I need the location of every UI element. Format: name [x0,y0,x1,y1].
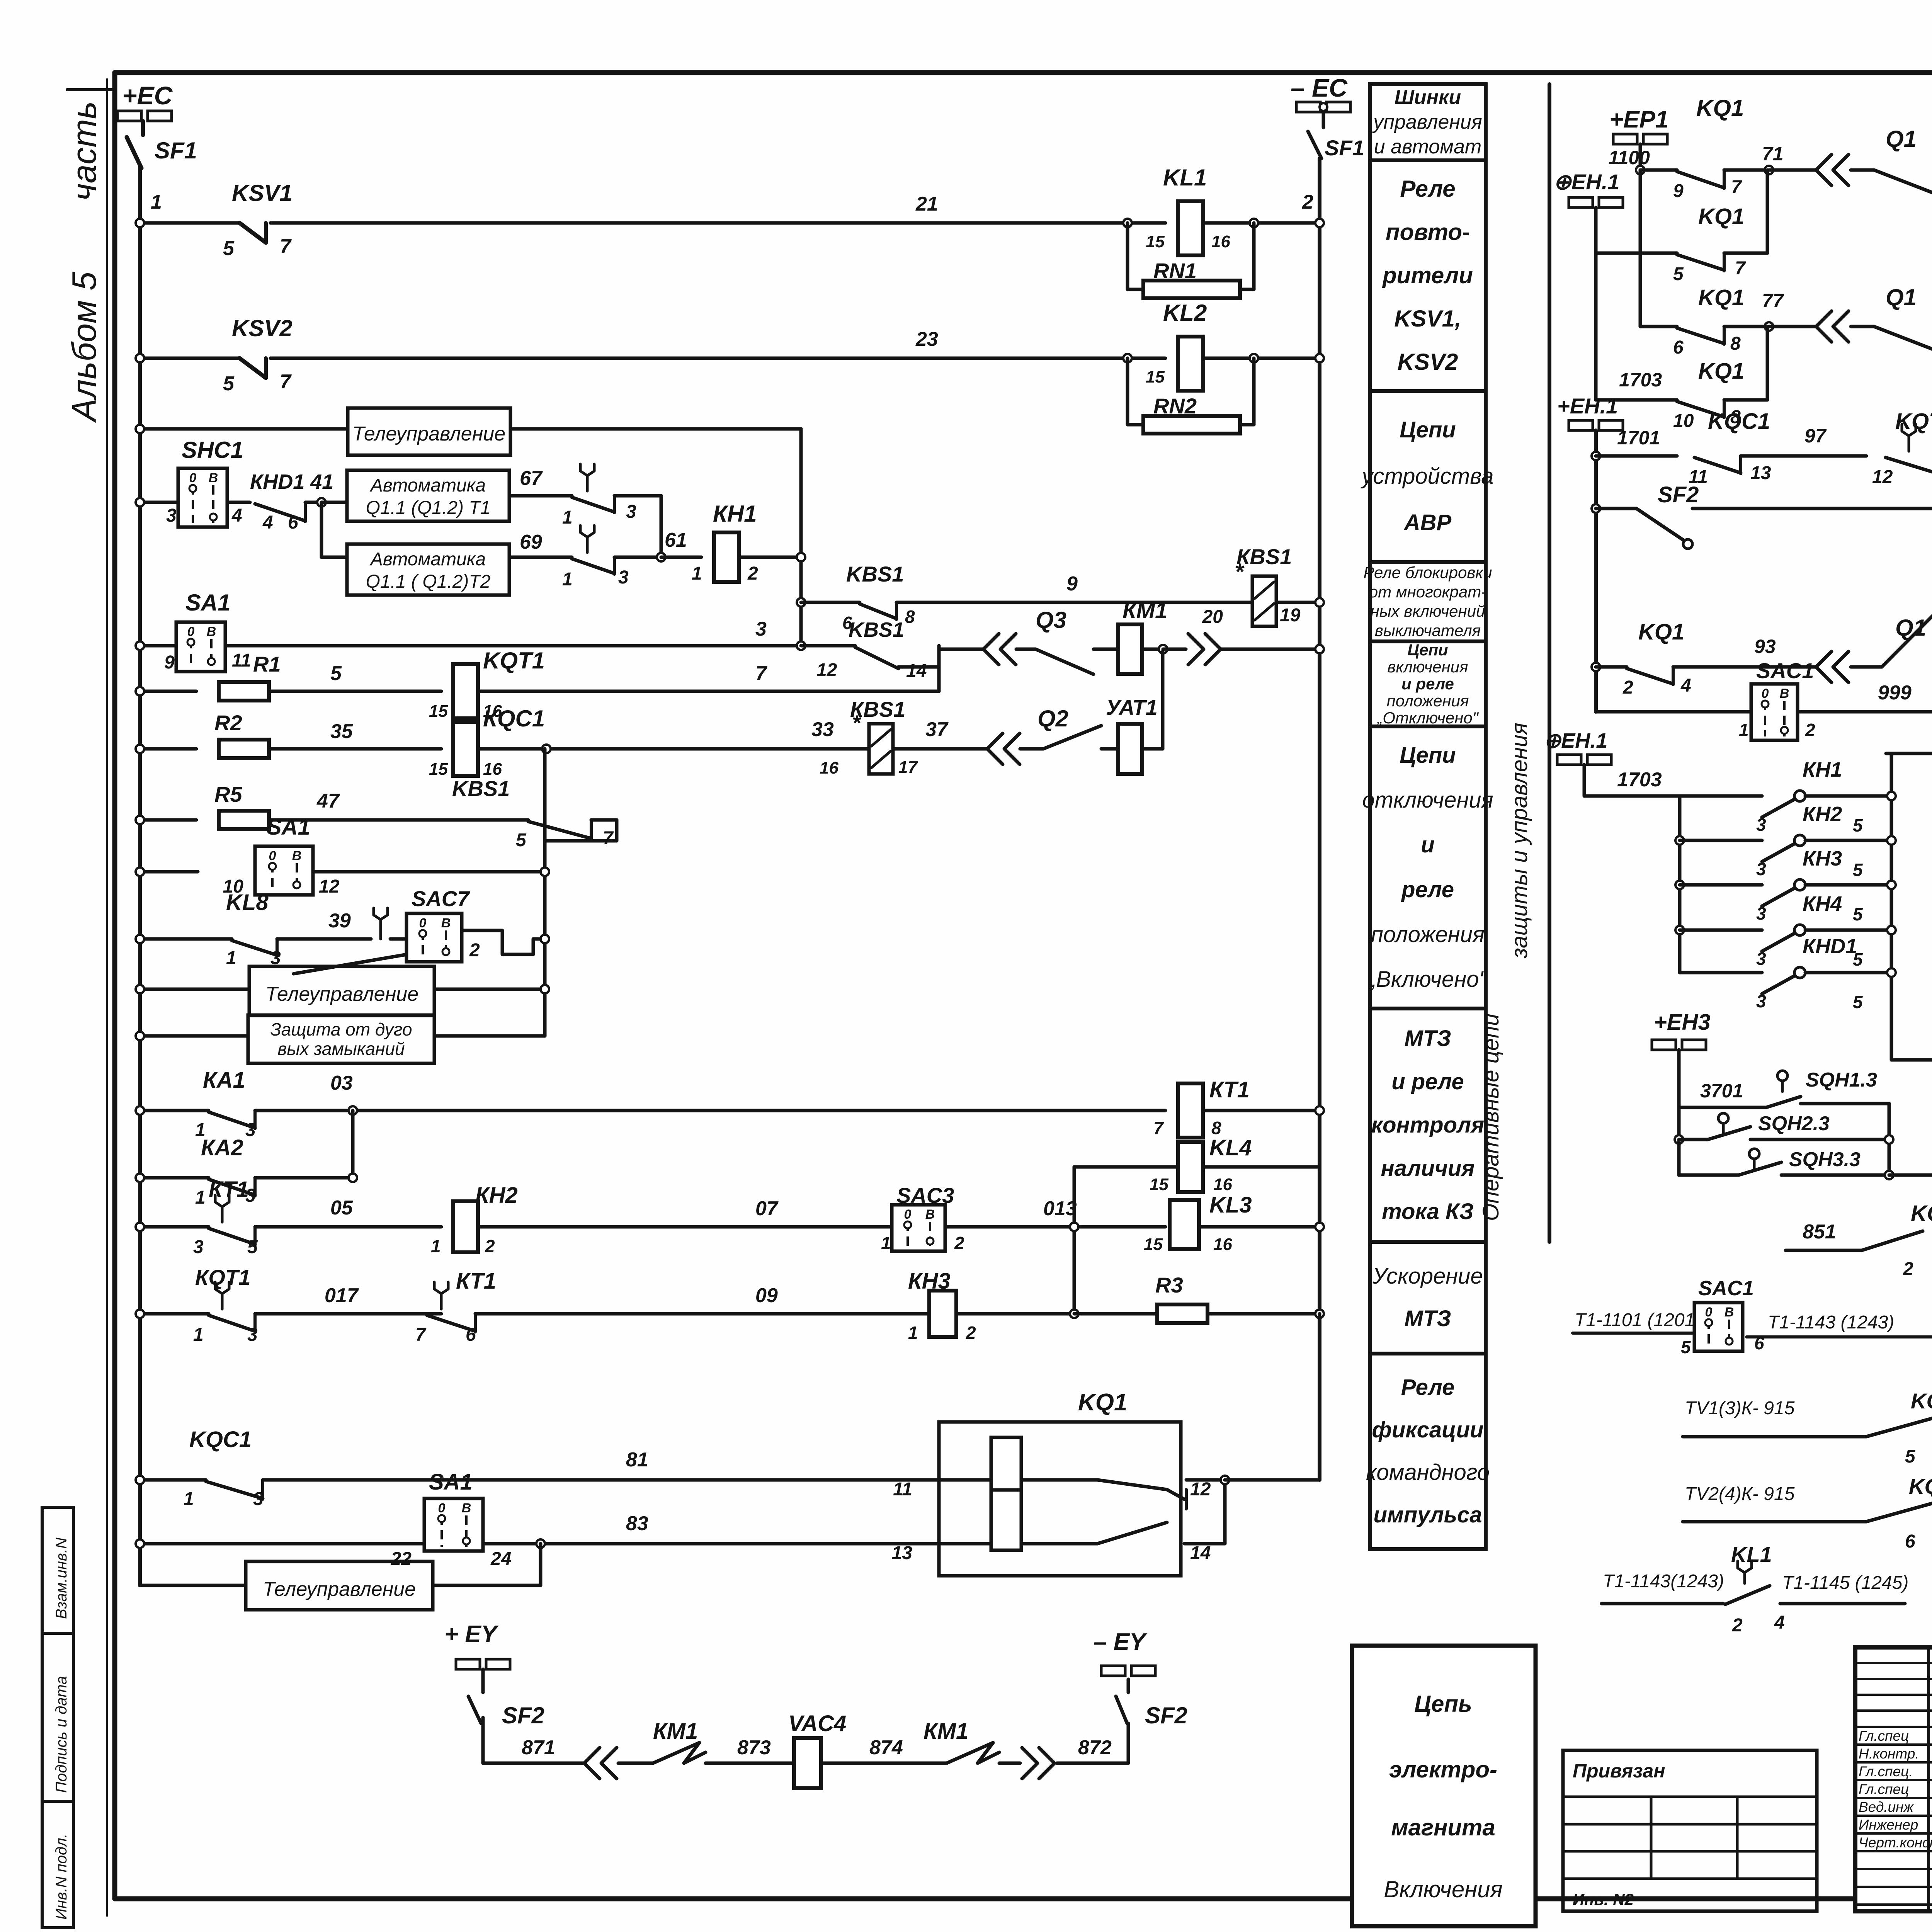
svg-text:KQ1: KQ1 [1698,359,1744,384]
svg-text:KL2: KL2 [1163,300,1207,326]
svg-text:5: 5 [330,662,342,685]
wire SA1 to trunk T1 [225,644,801,648]
wire to R3 [956,1312,1074,1316]
inner trunk T1 vertical [799,429,803,646]
wire SAC1 left to rail [1596,710,1751,714]
svg-text:Q1: Q1 [1886,126,1917,152]
svg-text:9: 9 [1673,181,1684,201]
middle col box: Цепи устройства АВР [1370,391,1486,562]
svg-text:3: 3 [253,1489,264,1509]
wire 33 to KBS1 slash 16-17 [478,747,869,751]
svg-text:Черт.конст: Черт.конст [1859,1835,1932,1850]
arrows plug-in left Q3 row [983,634,999,665]
svg-text:5: 5 [247,1237,258,1257]
svg-text:Т1-1143 (1243): Т1-1143 (1243) [1768,1312,1894,1333]
svg-text:В: В [209,471,218,485]
svg-text:16: 16 [1213,1235,1232,1254]
svg-text:Привязан: Привязан [1573,1760,1665,1782]
row Телеуправление 2 [140,988,249,991]
row 1701 KQC1 contact [1592,452,1600,460]
wire up to node 71 [1724,252,1767,255]
svg-text:устройства: устройства [1360,464,1493,489]
svg-text:SF1: SF1 [1325,136,1364,160]
wire 09 to KH3 [475,1312,929,1316]
svg-text:наличия: наличия [1381,1156,1475,1181]
KQ1 internal coil rects [991,1437,1021,1490]
row R2-KQC1 [140,747,196,751]
svg-text:КН2: КН2 [475,1183,518,1208]
svg-text:Н.контр.: Н.контр. [1859,1746,1919,1762]
row HLW1 lamp [1891,1058,1932,1062]
wire R3 to -EC trunk [1207,1312,1320,1316]
wire Защита box to trunk T2 [434,1034,545,1038]
svg-text:повто-: повто- [1386,219,1470,245]
svg-text:67: 67 [520,467,543,490]
svg-text:6: 6 [466,1325,476,1345]
svg-text:77: 77 [1762,290,1784,311]
svg-text:71: 71 [1762,143,1784,165]
contact KQ1 2-4 on rail [1592,663,1600,671]
left stamp box Взам.инв.N [42,1507,73,1633]
box Автоматика Q1.1(Q1.2)Т1 [347,470,509,521]
wire 871 [483,1762,583,1765]
svg-text:R2: R2 [214,711,242,735]
svg-text:07: 07 [755,1197,779,1220]
contact SQH1.3 [1777,1071,1787,1081]
svg-text:KQC1: KQC1 [1708,409,1770,434]
svg-text:20: 20 [1202,607,1223,627]
svg-text:2: 2 [1622,677,1633,698]
svg-text:81: 81 [626,1449,648,1471]
svg-text:и реле: и реле [1401,675,1454,693]
wire KT1 coil to -EC trunk [1203,1109,1320,1112]
svg-text:3: 3 [618,567,629,588]
svg-text:3: 3 [193,1237,204,1257]
wire 872 to SF2 [1057,1762,1128,1765]
svg-text:0: 0 [1705,1305,1713,1320]
jog vertical connecting Q3 row and R1 row [937,646,941,691]
row Защита от дуговых замыканий [140,1034,248,1038]
svg-text:ных включений: ных включений [1371,602,1485,620]
svg-text:Ускорение: Ускорение [1372,1264,1483,1289]
svg-text:16: 16 [483,760,502,779]
wire Телеуправление3 up to wire 83 [433,1584,541,1587]
margin tick top-left [67,88,114,91]
svg-text:КQТ1: КQТ1 [195,1265,250,1289]
svg-text:3: 3 [1756,949,1766,969]
wire 23 to coil KL2 [270,357,1165,360]
svg-text:7: 7 [280,371,292,393]
svg-text:Цепи: Цепи [1400,743,1456,768]
bus -EY tap [1101,1666,1125,1676]
relay coil KH1 [661,556,701,559]
svg-text:5: 5 [1853,992,1863,1012]
svg-text:2: 2 [469,940,480,961]
svg-text:KL8: KL8 [226,890,269,915]
svg-text:R1: R1 [253,652,281,676]
svg-text:Цепи: Цепи [1400,417,1456,442]
left paper edge line [106,79,108,1916]
svg-text:КТ1: КТ1 [1209,1077,1250,1102]
svg-text:6: 6 [288,512,298,533]
wire 69 to contact KL2 [509,556,572,559]
svg-text:93: 93 [1754,636,1776,657]
svg-text:В: В [292,849,302,863]
contact KH2 row [1675,836,1684,845]
svg-text:2: 2 [966,1323,976,1343]
wire 35 to coil KQC1 [269,747,441,751]
KQ1 lower internal wire and contact [939,1542,991,1546]
svg-text:6: 6 [1673,337,1684,358]
svg-text:5: 5 [1853,904,1863,924]
interlock KBS1 slash box 20-19 [1252,576,1276,626]
svg-text:873: 873 [737,1736,771,1759]
rail SQH right [1888,1104,1891,1175]
wire YAT1 up to KM1 node [1142,747,1163,751]
svg-text:16: 16 [1211,232,1230,251]
vertical from +EP1 node down to row 77 [1639,170,1642,327]
svg-text:отключения: отключения [1362,787,1493,813]
row3 wire to Телеуправление box [140,427,348,431]
svg-text:KQT1: KQT1 [483,648,545,673]
svg-text:3: 3 [245,1120,256,1140]
middle col box: Реле фиксации командного импульса [1370,1354,1486,1549]
svg-text:Включения: Включения [1384,1876,1502,1902]
svg-text:22: 22 [391,1549,412,1569]
middle col box: Реле блокировки от многократных включений выключателя [1370,562,1486,641]
svg-text:КН4: КН4 [1803,892,1842,915]
svg-text:03: 03 [330,1072,353,1094]
svg-text:КН1: КН1 [1803,758,1842,781]
wire 05 to coil KH2 [255,1225,441,1229]
breaker SF2 on +EY [481,1669,485,1692]
svg-text:Подпись и дата: Подпись и дата [53,1676,70,1793]
relay coil KHD1 [1889,1173,1932,1177]
row1 wire KSV1-KL1 [140,221,240,225]
wire KL3 to -EC trunk [1199,1225,1320,1229]
svg-text:15: 15 [429,760,448,779]
title block outer frame [1855,1647,1932,1911]
wire +EH3 down to 3701 row [1677,1050,1681,1107]
svg-text:управления: управления [1372,111,1482,133]
svg-text:KL1: KL1 [1163,165,1207,190]
stamp Привязан box [1563,1750,1817,1911]
row KQC1 contact 81 [140,1478,206,1482]
svg-text:13: 13 [1750,463,1771,483]
row KA1 [140,1109,209,1112]
row KT1 contact - KH2 [140,1225,209,1229]
box Цепь электромагнита Включения [1352,1646,1536,1926]
svg-text:12: 12 [1190,1479,1211,1500]
ladder right rail vertical for KH contacts [1890,753,1893,1060]
node branch point 41 [317,498,326,507]
svg-text:4: 4 [1774,1612,1785,1633]
svg-text:Реле блокировки: Реле блокировки [1364,563,1492,582]
row KBS1 6-8 from trunk [797,598,805,607]
middle col box: Цепи отключения и реле положения Включено [1370,726,1486,1009]
svg-text:командного: командного [1366,1460,1490,1485]
svg-text:МТЗ: МТЗ [1404,1306,1451,1331]
svg-text:1: 1 [431,1236,441,1256]
wire SAC1 to trunk T2 with jog [462,930,545,954]
row SA1 first [140,644,176,648]
svg-text:Q3: Q3 [1036,607,1066,633]
svg-text:В: В [925,1207,935,1222]
svg-text:KQC1: KQC1 [1911,1201,1932,1226]
svg-text:Защита от дуго: Защита от дуго [270,1019,412,1039]
svg-text:КМ1: КМ1 [653,1719,698,1744]
svg-text:SF1: SF1 [155,138,197,163]
vertical 03 to KA2 row [351,1111,355,1178]
svg-text:Альбом 5: Альбом 5 [65,271,103,423]
svg-text:KQ1: KQ1 [1638,619,1684,645]
wire to trunk T2 [615,820,619,841]
svg-text:8: 8 [905,607,915,627]
svg-text:KL4: KL4 [1209,1135,1252,1160]
svg-text:Взам.инв.N: Взам.инв.N [53,1537,70,1619]
svg-text:5: 5 [223,372,235,395]
box Защита от дуговых замыканий [248,1015,434,1063]
middle rotated strip Оперативные цепи защиты и управления [1548,84,1551,1242]
svg-text:7: 7 [1735,258,1746,279]
svg-text:10: 10 [1673,411,1694,431]
svg-text:Гл.спец: Гл.спец [1859,1728,1909,1744]
svg-text:„Отключено": „Отключено" [1376,709,1479,727]
bus +EC tap symbol [117,111,141,121]
svg-text:вых замыканий: вых замыканий [277,1039,405,1059]
row Q3-KM1 from jog [939,648,983,651]
wire 999 to lamp box HLA21 [1798,710,1932,714]
wire 5 to coil KQT1 [269,690,441,693]
svg-text:KQC1: KQC1 [1911,1389,1932,1413]
contact KQ1 6-8 row 77 [1640,325,1677,328]
contact KQ1 10-8 row 1703 [1594,253,1598,400]
svg-text:магнита: магнита [1391,1815,1495,1840]
svg-text:и: и [1421,832,1434,857]
svg-text:61: 61 [665,529,687,551]
svg-text:реле: реле [1401,877,1454,902]
svg-text:КН3: КН3 [1803,847,1842,870]
resistor R1 [219,682,269,701]
svg-text:1: 1 [692,563,702,584]
svg-text:ТV2(4)К- 915: ТV2(4)К- 915 [1685,1484,1795,1504]
wire 013 to KL3 [945,1225,1165,1229]
svg-text:7: 7 [1153,1118,1164,1138]
svg-text:+EC: +EC [122,81,173,110]
arrows plug-in Q2 row [987,733,1003,764]
svg-text:1: 1 [195,1187,206,1208]
svg-text:KBS1: KBS1 [846,562,904,586]
wire 93 [1673,665,1816,669]
svg-text:3: 3 [247,1325,258,1345]
contact KH1 row [1680,794,1762,798]
svg-text:КМ1: КМ1 [923,1719,968,1744]
wire 21 to coil KL1 [270,221,1165,225]
middle col box: Цепи включения и реле положения Отключено [1370,641,1486,726]
svg-text:69: 69 [520,531,542,553]
svg-text:1100: 1100 [1608,147,1650,168]
row R5-KBS1 5-7 [140,818,196,822]
svg-text:5: 5 [516,830,527,850]
svg-text:Вед.инж: Вед.инж [1859,1799,1914,1815]
breaker SF1 on -EC [1322,112,1325,128]
svg-text:KQ1: KQ1 [1698,204,1744,229]
svg-text:КНD1 41: КНD1 41 [250,470,333,493]
svg-text:5: 5 [1905,1446,1916,1467]
middle col box: Ускорение МТЗ [1370,1242,1486,1354]
KQ1 output bracket to -EC trunk [1223,1480,1227,1544]
svg-text:2: 2 [1302,191,1313,213]
svg-text:Автоматика: Автоматика [369,549,486,570]
svg-text:1703: 1703 [1617,769,1662,791]
svg-text:SAC1: SAC1 [1756,658,1814,683]
svg-text:3: 3 [1756,903,1766,923]
svg-text:SA1: SA1 [185,590,231,616]
svg-text:KQC1: KQC1 [189,1427,252,1452]
svg-text:3: 3 [166,505,177,526]
box Телеуправление 1 [348,408,510,455]
svg-text:SA1: SA1 [267,815,310,840]
svg-text:0: 0 [419,916,427,930]
middle col box: Реле повторители KSV1 KSV2 [1370,160,1486,391]
svg-text:11: 11 [232,650,251,671]
svg-text:SAC7: SAC7 [412,886,470,911]
svg-text:0: 0 [438,1501,446,1515]
svg-text:KSV2: KSV2 [232,315,293,341]
svg-text:МТЗ: МТЗ [1404,1026,1451,1051]
svg-text:12: 12 [1872,467,1893,487]
svg-text:1: 1 [226,948,236,968]
svg-text:1: 1 [151,191,162,213]
svg-text:4: 4 [262,512,273,533]
svg-text:Q2: Q2 [1037,706,1068,731]
svg-text:013: 013 [1043,1197,1077,1220]
svg-text:R5: R5 [214,782,242,806]
row VD1 diode 905 HLA1 [1886,752,1932,755]
svg-text:+ EY: + EY [444,1621,499,1648]
wire to -EC trunk [1276,601,1320,604]
svg-text:3: 3 [1756,815,1766,835]
svg-text:2: 2 [1805,720,1815,740]
svg-text:Автоматика: Автоматика [369,475,486,496]
svg-text:KQ1: KQ1 [1698,285,1744,310]
right trunk -EC vertical [1318,158,1321,1480]
svg-text:1: 1 [908,1323,918,1343]
svg-text:3: 3 [1756,991,1766,1011]
svg-text:АВР: АВР [1403,510,1452,535]
svg-text:+ЕН.1: +ЕН.1 [1557,394,1618,418]
breaker SF2 on -EY [1127,1723,1130,1763]
wire to Q1 breaker contact row1 [1769,168,1816,172]
svg-text:положения: положения [1371,922,1485,947]
row4 switch SHC1 [140,501,178,504]
svg-text:КQС1: КQС1 [483,706,545,731]
svg-text:9: 9 [164,652,175,673]
svg-text:3: 3 [755,618,767,640]
svg-text:КН1: КН1 [713,501,757,527]
svg-text:⊕ЕН.1: ⊕ЕН.1 [1544,729,1607,752]
signature rows horizontals [1855,1743,1932,1746]
contact KHD1 row [1680,971,1762,975]
svg-text:УАТ1: УАТ1 [1106,695,1158,719]
sheet frame left [112,73,117,1899]
svg-text:Цепь: Цепь [1414,1691,1472,1717]
arrows plug-in 93 row [1816,651,1832,682]
contact KL2 with latch [586,537,589,553]
svg-text:15: 15 [1146,367,1165,386]
svg-text:„Включено": „Включено" [1367,967,1488,992]
svg-text:выключателя: выключателя [1375,621,1481,639]
svg-text:часть: часть [65,101,103,201]
arrows plug-in Q1 row1 [1816,155,1832,185]
svg-text:включения: включения [1387,658,1468,676]
svg-text:14: 14 [1190,1543,1211,1563]
svg-text:Телеуправление: Телеуправление [263,1578,416,1600]
svg-text:874: 874 [869,1736,903,1759]
svg-text:7: 7 [415,1325,427,1345]
svg-text:КА2: КА2 [201,1135,243,1160]
arrows plug-out EY row [1022,1748,1037,1779]
wire KL4 to -EC trunk [1203,1165,1320,1169]
svg-text:фиксации: фиксации [1372,1417,1484,1442]
svg-text:6: 6 [1905,1531,1915,1552]
svg-text:В: В [462,1501,471,1515]
svg-text:– EC: – EC [1291,73,1348,102]
svg-text:47: 47 [316,790,340,812]
wire Телеуправление2 to trunk T2 [434,988,545,991]
arrows plug-in EY row [584,1748,600,1779]
svg-text:КНD1: КНD1 [1803,935,1857,958]
svg-text:0: 0 [904,1207,912,1222]
svg-text:Q1: Q1 [1886,284,1917,310]
node 71 [1724,168,1769,172]
arrows plug-in Q1 row2 [1816,311,1832,342]
svg-text:2: 2 [485,1236,495,1256]
svg-text:KL3: KL3 [1209,1192,1252,1218]
resistor R2 [219,740,269,758]
wire 67 to contact KL1 [509,494,572,498]
svg-text:Инженер: Инженер [1859,1817,1918,1833]
svg-text:24: 24 [490,1549,511,1569]
svg-text:КМ1: КМ1 [1122,598,1167,623]
svg-text:16: 16 [820,759,838,777]
wire 07 to SAC3 [478,1225,892,1229]
row KA2 [140,1176,209,1180]
breaker SF1 on +EC [141,121,145,135]
svg-text:2: 2 [1903,1259,1913,1279]
wire 37 to Q2 [893,747,986,751]
sheet frame top [115,70,1932,75]
rail EH1 vertical lower [1594,430,1598,712]
wire 874 [821,1762,947,1765]
svg-text:тока КЗ: тока КЗ [1382,1199,1474,1224]
wire to -EC trunk from KM1 row [1221,648,1320,651]
svg-text:+ЕН3: +ЕН3 [1654,1010,1711,1035]
svg-text:15: 15 [1150,1175,1168,1194]
svg-text:1: 1 [562,507,573,528]
svg-text:17: 17 [898,758,918,777]
wire KH1 to trunk T1 [739,556,801,559]
svg-text:KBS1: KBS1 [452,776,510,801]
svg-text:KSV1,: KSV1, [1394,306,1461,332]
svg-text:23: 23 [915,328,938,350]
svg-text:Т1-1143(1243): Т1-1143(1243) [1603,1571,1724,1592]
svg-text:2: 2 [747,563,758,584]
svg-text:7: 7 [1731,177,1742,197]
svg-text:1703: 1703 [1619,369,1662,391]
contact KL1 with latch [586,476,589,491]
svg-text:97: 97 [1804,425,1827,447]
